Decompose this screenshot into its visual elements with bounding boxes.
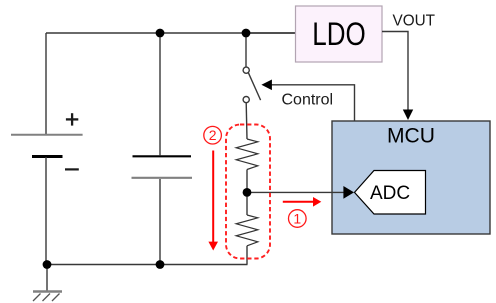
ground	[33, 292, 62, 302]
svg-text:2: 2	[209, 127, 217, 143]
ADC block	[355, 171, 426, 215]
wire switch to divider	[245, 103, 248, 139]
wire tap to R2	[246, 192, 248, 215]
annotation 2 circled number	[204, 126, 222, 144]
wire capacitor top lead	[159, 33, 161, 155]
label Control	[282, 92, 334, 109]
node ground junction	[43, 260, 52, 269]
svg-text:VOUT: VOUT	[393, 13, 436, 30]
wire VOUT to MCU with arrowhead	[382, 32, 413, 121]
switch SW1	[243, 67, 261, 103]
annotation 2 current arrow down	[208, 151, 218, 251]
wire control line with arrowhead	[261, 80, 354, 121]
wire battery top lead	[45, 33, 47, 134]
wire battery bottom lead	[45, 157, 47, 265]
resistor R1	[236, 139, 258, 170]
wire ground stub	[46, 265, 48, 292]
battery BT1	[11, 113, 83, 169]
divider highlight dashed box	[226, 125, 270, 259]
svg-text:MCU: MCU	[387, 125, 435, 148]
node switch top junction	[242, 29, 251, 38]
annotation 1 current arrow right	[283, 197, 322, 207]
wire R1 to tap	[246, 170, 248, 193]
wire R2 to bottom rail	[246, 246, 248, 265]
svg-text:1: 1	[293, 211, 301, 227]
svg-text:ADC: ADC	[370, 183, 410, 204]
node divider tap junction	[243, 188, 252, 197]
svg-text:LDO: LDO	[312, 16, 366, 52]
resistor R2	[236, 215, 258, 246]
wire top rail	[46, 32, 296, 34]
wire LDO input	[246, 32, 296, 34]
capacitor C1	[132, 156, 193, 178]
wire switch top lead	[245, 33, 247, 67]
svg-text:Control: Control	[282, 92, 334, 109]
MCU U2	[332, 121, 490, 234]
node capacitor top junction	[156, 29, 165, 38]
wire capacitor bottom lead	[159, 179, 161, 265]
label VOUT	[393, 13, 436, 30]
wire divider tap to ADC with arrowhead	[247, 186, 354, 199]
node capacitor bottom junction	[156, 260, 165, 269]
wire bottom rail	[46, 264, 248, 266]
annotation 1 circled number	[289, 210, 307, 228]
LDO U1	[296, 6, 383, 62]
